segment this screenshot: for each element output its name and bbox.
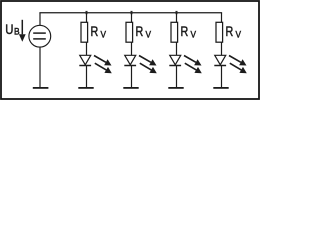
wire: [176, 13, 178, 23]
junction node 1: [86, 11, 88, 14]
wire: [131, 66, 133, 88]
light arrows D2: [139, 56, 157, 74]
wire: [86, 42, 88, 55]
svg-text:R: R: [181, 24, 189, 40]
wire source top: [39, 13, 41, 25]
ground 3: [168, 87, 183, 89]
wire: [221, 13, 223, 23]
light arrows D1: [94, 56, 112, 74]
ground 4: [213, 87, 228, 89]
wire: [86, 13, 88, 23]
light arrows D4: [229, 56, 247, 74]
ground 1: [78, 87, 93, 89]
LED D4: [215, 55, 226, 65]
light arrows D3: [184, 56, 202, 74]
branch 4: [213, 13, 247, 88]
wire: [86, 66, 88, 88]
wire: [131, 13, 133, 23]
wire: [131, 42, 133, 55]
junction node 3: [176, 11, 178, 14]
svg-text:V: V: [191, 29, 197, 40]
resistor RV4: [216, 22, 223, 42]
voltage source UB circle: [29, 25, 51, 47]
wire: [176, 66, 178, 88]
LED D2: [125, 55, 136, 65]
ground 2: [123, 87, 138, 89]
wire: [176, 42, 178, 55]
branch 2: [123, 11, 157, 88]
resistor RV2: [126, 22, 133, 42]
svg-text:U: U: [5, 21, 13, 37]
svg-text:B: B: [14, 26, 20, 37]
ground source: [33, 87, 49, 89]
svg-text:R: R: [226, 24, 234, 40]
svg-text:V: V: [101, 29, 107, 40]
junction node 2: [131, 11, 133, 14]
wire source bottom: [39, 47, 41, 88]
LED D3: [170, 55, 181, 65]
wire: [221, 66, 223, 88]
resistor RV1: [81, 22, 88, 42]
border frame: [1, 1, 259, 99]
wire top rail: [39, 12, 222, 14]
branch 3: [168, 11, 202, 88]
svg-text:V: V: [146, 29, 152, 40]
resistor RV3: [171, 22, 178, 42]
branch 1: [78, 11, 112, 88]
LED D1: [80, 55, 91, 65]
svg-text:R: R: [136, 24, 144, 40]
wire: [221, 42, 223, 55]
voltage arrow UB: [19, 20, 26, 42]
svg-text:R: R: [91, 24, 99, 40]
svg-text:V: V: [236, 29, 242, 40]
